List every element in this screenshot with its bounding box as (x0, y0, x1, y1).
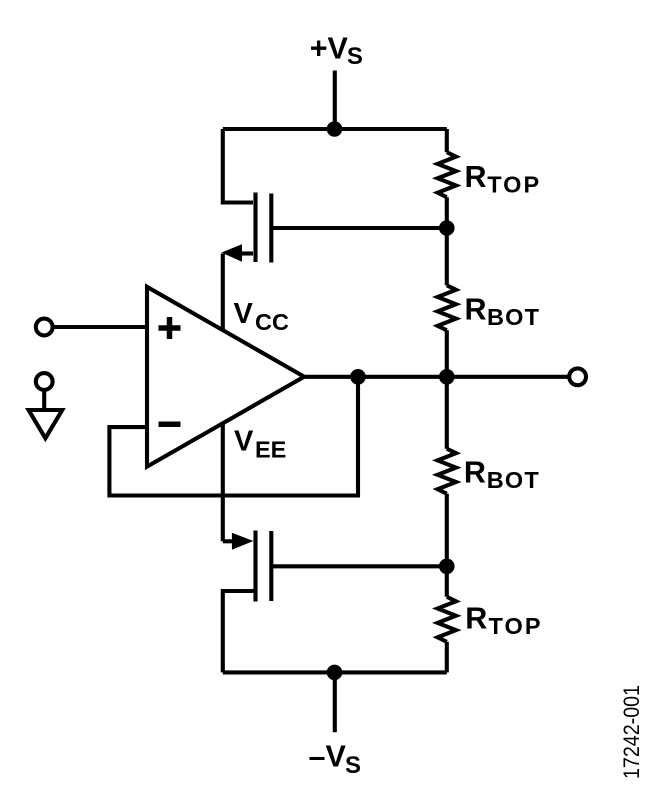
wire op-amp VEE to Q2 source (upper overshoot hidden by triangle) (221, 421, 225, 541)
node junction top rail dot (327, 121, 343, 137)
wire +VS stub to top rail (333, 71, 337, 130)
node output rail junction dot (439, 369, 455, 385)
resistor RTOP upper zigzag (438, 152, 456, 197)
op-amp U1 triangle (147, 287, 304, 467)
svg-text:V: V (234, 426, 254, 458)
wire -VS stub (333, 672, 337, 732)
supply label +VS (310, 31, 363, 70)
transistor Q1 gate wire to RTOP/RBOT node (273, 226, 447, 230)
svg-text:17242-001: 17242-001 (619, 685, 644, 779)
pin label VEE (234, 426, 286, 463)
svg-text:S: S (347, 43, 363, 70)
wire right rail segment 5 (445, 642, 449, 673)
ground symbol stub (42, 390, 46, 409)
label RTOP upper (465, 160, 540, 198)
svg-text:V: V (234, 298, 254, 330)
wire right rail segment 1 (445, 129, 449, 152)
wire top rail (223, 127, 447, 131)
svg-text:CC: CC (255, 309, 289, 335)
node gate junction bottom dot (439, 559, 455, 575)
pin label VCC (234, 298, 289, 335)
resistor RBOT lower zigzag (438, 449, 456, 494)
wire right rail segment 3 (445, 330, 449, 448)
input terminal circle (36, 319, 53, 336)
ground terminal circle (36, 373, 53, 390)
svg-text:R: R (465, 601, 487, 635)
node feedback junction dot (350, 369, 366, 385)
wire right rail segment 2 (445, 197, 449, 285)
output terminal circle (569, 368, 586, 385)
ground symbol triangle (29, 410, 63, 438)
svg-text:BOT: BOT (487, 467, 540, 493)
label RBOT lower (464, 456, 539, 494)
transistor Q2 drain wire (223, 591, 255, 672)
op-amp minus input symbol (159, 422, 181, 428)
wire input to plus input (53, 325, 147, 329)
svg-text:–V: –V (309, 740, 347, 774)
svg-text:+V: +V (310, 31, 349, 65)
transistor Q1 gate bar (269, 194, 273, 263)
resistor RBOT upper zigzag (438, 285, 456, 330)
svg-text:TOP: TOP (489, 613, 541, 639)
node gate junction top dot (439, 220, 455, 236)
wire right rail segment 4 (445, 494, 449, 597)
node bottom rail junction dot (327, 665, 343, 681)
svg-text:S: S (345, 752, 361, 779)
resistor RTOP lower zigzag (438, 597, 456, 642)
op-amp plus input symbol (159, 317, 181, 339)
svg-text:R: R (465, 293, 487, 327)
transistor Q1 channel bar (253, 193, 257, 263)
svg-text:R: R (464, 456, 486, 490)
transistor Q2 source wire from VEE (223, 539, 232, 543)
wire top-left drop to Q1 drain (223, 129, 253, 203)
supply label -VS (309, 740, 362, 779)
wire output from op-amp apex (304, 375, 569, 379)
wire feedback loop from minus input to output node (109, 377, 358, 496)
transistor Q1 source arrow (221, 244, 242, 262)
svg-text:R: R (465, 160, 487, 194)
svg-text:BOT: BOT (487, 304, 540, 330)
transistor Q2 channel bar (253, 531, 257, 602)
transistor Q2 source arrow (232, 533, 254, 550)
transistor Q2 gate bar (269, 531, 273, 601)
svg-text:EE: EE (255, 436, 286, 462)
wire bottom rail (223, 670, 447, 674)
wire Q1 source to op-amp VCC (221, 254, 225, 334)
label RTOP lower (465, 601, 540, 639)
label RBOT upper (465, 293, 540, 331)
svg-text:TOP: TOP (487, 171, 539, 197)
transistor Q2 gate wire to node (273, 564, 447, 568)
